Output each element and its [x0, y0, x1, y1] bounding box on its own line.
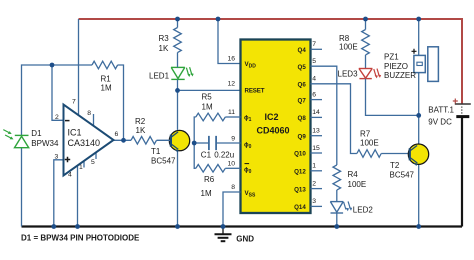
svg-text:4: 4 [312, 76, 316, 83]
photodiode light arrows [3, 130, 13, 140]
node junction at 52,65 [50, 63, 55, 68]
svg-text:RESET: RESET [245, 88, 265, 95]
wire Q13 stub [311, 188, 323, 190]
wire node to RESET pin 12 [178, 89, 241, 91]
svg-text:PZ1: PZ1 [384, 53, 399, 62]
svg-text:LED1: LED1 [149, 71, 170, 80]
wire Q7 stub [311, 99, 323, 101]
wire R4 to LED2 [336, 190, 338, 202]
svg-text:CD4060: CD4060 [257, 126, 290, 136]
svg-text:7: 7 [312, 41, 316, 48]
LED1 green [171, 67, 185, 79]
svg-text:Q13: Q13 [294, 186, 306, 193]
svg-text:D1: D1 [31, 129, 42, 138]
svg-text:Q14: Q14 [294, 204, 306, 211]
svg-text:2: 2 [312, 180, 316, 187]
svg-text:15: 15 [312, 145, 320, 152]
svg-text:R2: R2 [135, 117, 146, 126]
wire Q8 stub [311, 116, 323, 118]
wire R3 top to rail [177, 19, 179, 28]
node junction at 223,226.5 [221, 224, 226, 229]
wire D1 cathode to ground [21, 148, 23, 227]
svg-text:14: 14 [312, 109, 320, 116]
svg-text:11: 11 [228, 109, 235, 116]
resistor R4 100E [333, 165, 341, 190]
wire Q14 stub [311, 205, 323, 207]
svg-text:IC2: IC2 [265, 112, 279, 122]
resistor R5 1M [196, 113, 226, 121]
resistor R2 1K [131, 137, 156, 145]
wire R6 to pin 10 [225, 167, 240, 169]
photodiode D1 BPW34 [15, 135, 29, 147]
svg-text:Q10: Q10 [294, 151, 306, 158]
svg-text:Q7: Q7 [298, 97, 307, 104]
wire Q4 stub [311, 48, 323, 50]
svg-text:PIEZO: PIEZO [384, 62, 408, 71]
svg-text:C1: C1 [201, 151, 212, 160]
node junction at 77.5,226.5 [75, 224, 80, 229]
LED2 [330, 202, 343, 213]
svg-text:12: 12 [227, 81, 235, 88]
LED1 arrows [186, 67, 193, 77]
resistor R6 1M [196, 165, 226, 173]
IC2 CD4060 [241, 40, 311, 214]
svg-text:Q8: Q8 [298, 115, 307, 122]
LED3 red [359, 69, 373, 79]
svg-text:6: 6 [312, 91, 316, 98]
wire bus to C1 [194, 142, 209, 144]
svg-text:100E: 100E [360, 139, 379, 148]
svg-text:9V DC: 9V DC [428, 117, 452, 126]
buzzer plus sign [412, 49, 417, 54]
svg-text:GND: GND [236, 234, 254, 243]
svg-text:D1 = BPW34 PIN PHOTODIODE: D1 = BPW34 PIN PHOTODIODE [21, 234, 140, 243]
svg-text:1M: 1M [201, 189, 212, 198]
node junction at 418.7,19 [416, 17, 421, 22]
wire R8 top to rail [365, 19, 367, 30]
op-amp plus input mark [65, 157, 70, 162]
wire LED2 to ground [336, 213, 338, 227]
wire op-amp pin 8 stub [93, 114, 95, 126]
wire feedback node top [22, 65, 93, 135]
wire C1 to pin 9 [216, 142, 240, 144]
transistor T2 BC547 [408, 144, 428, 166]
svg-text:1K: 1K [136, 126, 146, 135]
svg-text:6: 6 [115, 131, 119, 138]
svg-text:1M: 1M [101, 83, 112, 92]
wire Q9 stub [311, 135, 323, 137]
wire LED3 cathode to collector node [366, 79, 419, 116]
wire T1 emitter to ground [177, 151, 179, 226]
wire VDD pin 16 to rail [218, 19, 241, 64]
LED2 arrows [344, 201, 353, 211]
resistor R8 100E [362, 30, 370, 55]
ground GND symbol [215, 227, 232, 242]
svg-text:2: 2 [55, 114, 59, 121]
svg-text:16: 16 [227, 56, 235, 63]
op-amp minus input mark [65, 120, 70, 122]
wire R5 to pin 11 [225, 116, 240, 118]
capacitor C1 0.22u [209, 136, 216, 150]
svg-text:1M: 1M [202, 103, 213, 112]
node junction at 418.7,226.5 [416, 224, 421, 229]
wire R7 to T2 base [381, 153, 409, 155]
node junction at 177.5,19 [175, 17, 180, 22]
svg-text:R5: R5 [202, 93, 213, 102]
piezo buzzer PZ1 [414, 47, 439, 82]
svg-text:9: 9 [231, 135, 235, 142]
battery plus sign [453, 99, 458, 104]
node junction at 418.7,115.4 [416, 113, 421, 118]
node junction at 194.2,143 [192, 141, 197, 146]
wire Q10 stub [311, 152, 323, 154]
svg-text:R7: R7 [360, 130, 371, 139]
svg-text:LED3: LED3 [338, 70, 359, 79]
wire op-amp pin 4 to ground [77, 166, 79, 227]
wire ground bottom rail [22, 225, 463, 227]
svg-text:100E: 100E [339, 43, 358, 52]
svg-text:8: 8 [87, 110, 91, 117]
node junction at 365.5,19 [363, 17, 368, 22]
resistor R3 1K [174, 28, 182, 53]
svg-text:13: 13 [312, 128, 320, 135]
svg-text:3: 3 [55, 154, 59, 161]
svg-text:5: 5 [312, 58, 316, 65]
op-amp IC1 CA3140 [64, 105, 114, 176]
svg-text:BC547: BC547 [390, 171, 415, 180]
svg-text:CA3140: CA3140 [68, 138, 101, 148]
wire R1 right to output node [118, 65, 124, 140]
wire op-amp pin 6 output [110, 139, 131, 141]
wire Q6 pin 4 to R7 [311, 84, 357, 154]
svg-text:BPW34: BPW34 [31, 139, 59, 148]
wire Q12 stub [311, 170, 323, 172]
svg-text:LED2: LED2 [353, 206, 374, 215]
wire Q5 pin 5 to R4 [311, 66, 337, 165]
wire battery negative [461, 118, 463, 227]
svg-text:Q4: Q4 [298, 47, 307, 54]
wire LED1 cathode to node [177, 79, 179, 90]
svg-text:R3: R3 [159, 34, 170, 43]
svg-text:10: 10 [227, 161, 235, 168]
svg-text:R4: R4 [348, 170, 359, 179]
wire op-amp pin 1 stub [83, 161, 85, 168]
svg-text:1: 1 [79, 164, 83, 171]
LED3 arrows [374, 69, 381, 79]
wire op-amp pin 3 to ground [54, 160, 64, 227]
wire Vss pin 8 to ground [223, 192, 241, 227]
svg-text:Q6: Q6 [298, 82, 307, 89]
svg-text:R6: R6 [204, 175, 215, 184]
svg-text:7: 7 [72, 99, 76, 106]
svg-text:Q12: Q12 [294, 169, 306, 176]
node junction at 177.5,226.5 [175, 224, 180, 229]
svg-text:100E: 100E [348, 180, 367, 189]
transistor T1 BC547 [157, 130, 190, 152]
wire collector node to T2 [418, 115, 420, 143]
svg-text:0.22u: 0.22u [214, 151, 234, 160]
svg-text:BUZZER: BUZZER [384, 71, 416, 80]
node junction at 53.8,226.5 [51, 224, 56, 229]
wire R8 to LED3 [365, 55, 367, 69]
resistor R7 100E [357, 150, 381, 158]
svg-text:T1: T1 [151, 147, 161, 156]
wire buzzer top to rail [418, 19, 420, 55]
battery BATT.1 9V [455, 104, 471, 117]
svg-text:3: 3 [312, 198, 316, 205]
svg-text:4: 4 [68, 172, 72, 179]
wire R3 to LED1 [177, 53, 179, 68]
wire oscillator bus [194, 117, 196, 168]
node junction at 336.8,226.5 [334, 224, 339, 229]
node junction at 177.5,90.4 [175, 88, 180, 93]
node junction at 123.5,140.3 [121, 138, 126, 143]
svg-text:Q5: Q5 [298, 64, 307, 71]
wire +9V red top rail [79, 19, 463, 104]
svg-text:Q9: Q9 [298, 133, 307, 140]
svg-text:IC1: IC1 [68, 127, 82, 137]
svg-text:8: 8 [231, 184, 235, 191]
wire op-amp pin 7 to +V [78, 19, 80, 115]
svg-text:R1: R1 [101, 74, 112, 83]
resistor R1 1M [92, 61, 118, 69]
wire node to T1 collector [177, 90, 179, 129]
wire op-amp pin 2 [52, 65, 64, 120]
svg-text:5: 5 [91, 159, 95, 166]
node junction at 218,19 [216, 17, 221, 22]
wire op-amp pin 5 stub [95, 153, 97, 160]
svg-text:BC547: BC547 [151, 157, 176, 166]
wire T2 emitter to ground [418, 165, 420, 227]
svg-text:1: 1 [312, 163, 316, 170]
svg-text:1K: 1K [159, 44, 169, 53]
svg-text:BATT.1: BATT.1 [428, 106, 454, 115]
svg-text:T2: T2 [390, 161, 400, 170]
wire buzzer bottom to node [418, 73, 420, 116]
